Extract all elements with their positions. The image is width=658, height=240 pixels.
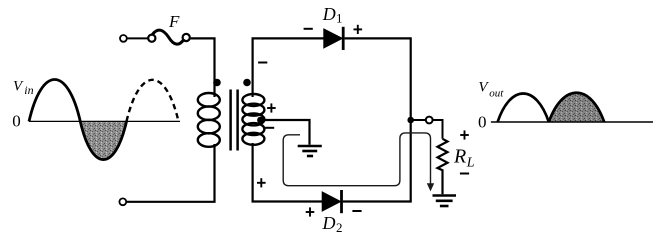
label RL <box>453 146 475 171</box>
svg-text:D: D <box>322 4 336 24</box>
svg-text:in: in <box>24 83 33 97</box>
wire (output terminal to RL) <box>433 120 443 139</box>
label − (RL bottom) <box>460 173 469 175</box>
label − (D1 anode) <box>304 28 313 30</box>
label + (RL top) <box>460 130 469 139</box>
label Vin <box>13 79 34 97</box>
wire (bottom terminal to transformer primary bottom) <box>126 144 214 202</box>
svg-text:2: 2 <box>336 220 343 235</box>
label D2 <box>322 213 343 235</box>
transformer primary winding <box>198 93 220 147</box>
input terminal (top) <box>120 35 127 42</box>
label + (secondary bottom polarity) <box>257 178 266 187</box>
Vin shaded negative half-cycle <box>29 121 180 159</box>
wire (D1 to output node) <box>345 38 411 120</box>
ground (RL) <box>433 196 457 207</box>
svg-text:R: R <box>453 146 466 168</box>
label + (D2 anode) <box>306 207 315 216</box>
output terminal <box>426 117 433 124</box>
Vout first half-cycle (unshaded) <box>498 94 549 123</box>
fuse F <box>148 30 190 44</box>
Vin solid positive half-cycle <box>29 79 80 121</box>
svg-text:1: 1 <box>336 10 343 25</box>
label Vout <box>478 80 504 100</box>
svg-text:L: L <box>466 156 475 171</box>
svg-text:out: out <box>489 87 504 99</box>
input terminal (bottom) <box>119 198 126 205</box>
svg-text:0: 0 <box>478 113 487 132</box>
ground (center tap) <box>298 146 322 156</box>
wire (secondary bottom to D2) <box>253 143 323 202</box>
wire (top terminal to fuse) <box>127 37 148 39</box>
label − (D2 cathode) <box>352 210 361 212</box>
diode D1 <box>324 27 343 50</box>
wire (junction to output terminal) <box>411 119 426 121</box>
label − (secondary top polarity) <box>258 62 267 64</box>
diode D2 <box>322 190 341 213</box>
svg-text:0: 0 <box>12 112 20 131</box>
transformer secondary winding <box>242 94 264 145</box>
wire (secondary top to D1) <box>253 38 324 97</box>
wire (D2 to output node) <box>343 120 411 202</box>
Vin dashed positive half-cycle <box>127 80 179 122</box>
svg-text:D: D <box>322 213 336 233</box>
label − (center tap lower polarity) <box>265 127 274 129</box>
Vout second half-cycle (shaded) <box>491 93 653 122</box>
label + (D1 cathode) <box>354 25 363 34</box>
center tap junction dot <box>257 117 264 124</box>
polarity dot (primary) <box>213 79 221 87</box>
wire (center tap to ground) <box>261 120 310 145</box>
svg-text:F: F <box>168 12 180 31</box>
label + (center tap upper polarity) <box>267 103 276 112</box>
resistor RL <box>438 139 448 194</box>
current path (center-tap ground to RL ground, with arrow) <box>283 133 434 192</box>
polarity dot (secondary) <box>243 79 251 87</box>
transformer core <box>231 90 238 151</box>
node junction (rectifier output) <box>407 117 414 124</box>
wire (fuse to transformer primary top) <box>191 38 215 97</box>
label D1 <box>322 4 343 25</box>
